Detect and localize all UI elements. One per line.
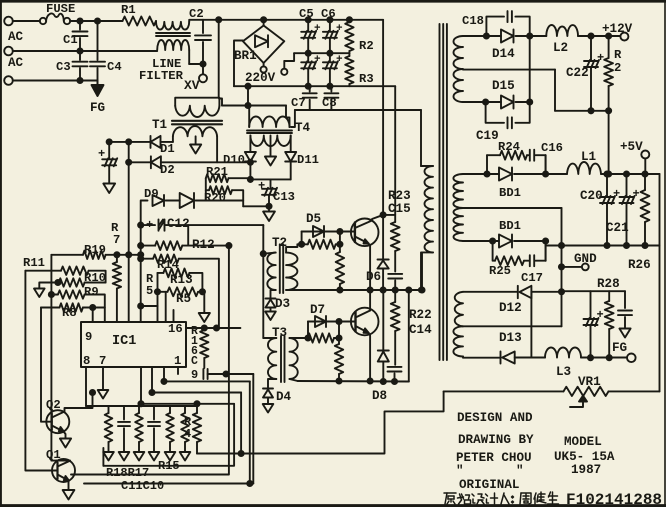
svg-text:R22: R22 bbox=[409, 308, 432, 322]
label R4 bbox=[184, 415, 192, 441]
wire bus129 down bbox=[128, 142, 130, 322]
diode D15 bbox=[486, 96, 530, 109]
node G1 bot bbox=[483, 99, 488, 104]
svg-text:9: 9 bbox=[191, 368, 198, 382]
svg-text:GND: GND bbox=[574, 252, 597, 266]
svg-text:C21: C21 bbox=[606, 221, 629, 235]
node rail-junction bbox=[216, 17, 221, 22]
svg-text:C19: C19 bbox=[476, 129, 499, 143]
svg-text:L3: L3 bbox=[556, 365, 571, 379]
scan border frame bbox=[0, 0, 666, 3]
wire gnd link bbox=[243, 205, 269, 207]
transformer main secondary G3 bbox=[453, 292, 517, 358]
resistor R24 bbox=[487, 151, 527, 160]
wire AC3 line bbox=[13, 80, 98, 82]
label R9 bbox=[84, 285, 99, 299]
capacitor C11 bbox=[118, 406, 130, 461]
wire T1 right riser bbox=[218, 98, 220, 106]
svg-text:FG: FG bbox=[90, 101, 105, 115]
label +12V bbox=[602, 22, 633, 36]
label pin16 bbox=[168, 322, 183, 336]
diode D9b bbox=[180, 193, 244, 208]
svg-text:C: C bbox=[191, 355, 198, 368]
node D10 out bbox=[248, 160, 253, 165]
svg-text:C1: C1 bbox=[63, 33, 78, 47]
node T3 link bot bbox=[336, 335, 341, 340]
label AC top bbox=[8, 30, 24, 44]
inductor line filter top winding bbox=[156, 20, 203, 30]
wiper VR1 bbox=[570, 396, 587, 407]
label D5 bbox=[306, 212, 321, 226]
node midrail 408 bbox=[406, 287, 411, 292]
resistor T2 base bbox=[308, 240, 340, 249]
wire T2 row2 bbox=[297, 243, 307, 245]
resistor R26 bbox=[641, 174, 650, 246]
terminal AC line 3 bbox=[4, 76, 13, 85]
wire primary bottom link bbox=[421, 252, 423, 290]
node D8 rail bbox=[381, 379, 386, 384]
svg-text:C17: C17 bbox=[521, 271, 543, 285]
svg-text:R19: R19 bbox=[84, 243, 106, 257]
svg-text:C13: C13 bbox=[273, 190, 295, 204]
wire vert249 bbox=[249, 381, 251, 483]
svg-text:D8: D8 bbox=[372, 389, 387, 403]
ground FG branch arrow bbox=[619, 329, 630, 338]
wire rail B bbox=[219, 99, 286, 106]
label C17 bbox=[521, 271, 543, 285]
node bus561 gnd bbox=[559, 264, 564, 269]
wire D2 line to D10 bbox=[217, 161, 250, 163]
node c9 dot bbox=[223, 371, 228, 376]
label VR1 bbox=[578, 375, 601, 389]
node R8 drop bbox=[90, 305, 95, 310]
capacitor C1 bbox=[73, 21, 88, 51]
svg-text:R26: R26 bbox=[628, 258, 651, 272]
wire vert229 bbox=[71, 246, 229, 475]
node jog bus140 bbox=[138, 303, 143, 308]
wire right edge bbox=[659, 174, 661, 391]
capacitor C16 bbox=[527, 150, 546, 161]
label C21 bbox=[606, 221, 629, 235]
node R5 left bbox=[155, 289, 160, 294]
svg-text:D6: D6 bbox=[366, 270, 381, 284]
capacitor C4 bbox=[90, 21, 105, 84]
svg-text:R15: R15 bbox=[158, 459, 180, 473]
label C7 bbox=[291, 96, 306, 110]
node fuse-C1 bbox=[77, 18, 82, 23]
node R9-bus51 bbox=[49, 292, 54, 297]
node L3 609 bbox=[607, 355, 612, 360]
label D2 bbox=[160, 163, 175, 177]
svg-text:D4: D4 bbox=[276, 390, 292, 404]
diode D12 bbox=[518, 286, 562, 298]
wire D5 line bbox=[302, 231, 355, 233]
wire D7 line bbox=[308, 321, 356, 323]
label L2 bbox=[553, 41, 568, 55]
label D14 bbox=[492, 47, 515, 61]
terminal +12V bbox=[620, 33, 628, 41]
wire vert103 bbox=[102, 448, 104, 466]
svg-text:R14: R14 bbox=[157, 258, 179, 272]
resistor R11 bbox=[25, 267, 105, 283]
resistor R10 bbox=[58, 278, 106, 286]
svg-text:+: + bbox=[613, 187, 620, 201]
wire R8 drop to IC bbox=[92, 308, 94, 323]
resistor T2 damp bbox=[336, 244, 344, 290]
label R5v bbox=[146, 272, 154, 298]
resistor R7 bbox=[113, 255, 121, 322]
svg-text:DESIGN AND: DESIGN AND bbox=[457, 411, 533, 425]
wire mid rail 290 bbox=[297, 289, 422, 291]
node Q3 collector bbox=[381, 212, 386, 217]
transformer T2 right winding bbox=[286, 244, 297, 290]
label R28 bbox=[597, 277, 620, 291]
node C5 mid bbox=[306, 51, 311, 56]
node C22 bot bbox=[588, 108, 593, 113]
wire 5V left leg bbox=[545, 246, 547, 261]
label C15 bbox=[388, 202, 411, 216]
wire bus51 bbox=[51, 255, 56, 461]
resistor T3 base bbox=[308, 333, 339, 342]
ground FG arrow bbox=[92, 81, 104, 97]
wire C7 jog bbox=[247, 86, 249, 105]
inductor line filter bottom winding bbox=[157, 40, 189, 64]
label T1 bbox=[152, 118, 168, 132]
node D1 bus bbox=[126, 139, 131, 144]
wire horiz483 bbox=[84, 483, 253, 485]
node r16 top bbox=[202, 325, 207, 330]
wire D14-D15 join bbox=[529, 36, 531, 102]
transformer T4 bottom winding bbox=[250, 136, 290, 153]
node BD1b left bbox=[490, 238, 495, 243]
wire stair4 bbox=[141, 367, 234, 404]
label C11C10 bbox=[121, 479, 164, 493]
resistor R28 bbox=[605, 291, 614, 358]
svg-text:2: 2 bbox=[614, 61, 621, 75]
wire bus561 bbox=[561, 208, 563, 326]
label L3 bbox=[556, 365, 571, 379]
transformer T3 right winding bbox=[290, 338, 298, 381]
label BD1b bbox=[499, 219, 521, 233]
transformer T3 left winding bbox=[263, 338, 276, 389]
capacitor C19 bbox=[486, 102, 530, 128]
label R12 bbox=[192, 238, 215, 252]
diode D11 bbox=[285, 152, 296, 179]
resistor R21 bbox=[206, 174, 251, 182]
label Q2 bbox=[46, 398, 61, 412]
capacitor C7 bbox=[303, 86, 317, 110]
svg-text:R23: R23 bbox=[388, 189, 411, 203]
svg-text:R25: R25 bbox=[489, 264, 511, 278]
diode D5 bbox=[313, 226, 324, 237]
label R20 bbox=[204, 191, 226, 205]
diode D10 bbox=[245, 152, 256, 179]
label FILTER bbox=[139, 69, 184, 83]
label L1 bbox=[581, 150, 597, 164]
label XV bbox=[184, 78, 200, 93]
node stair3 dot bbox=[149, 390, 154, 395]
label FG right bbox=[612, 341, 627, 355]
label R10 bbox=[84, 271, 106, 285]
transformer main secondary G1 tap bbox=[463, 69, 555, 71]
diode D8 bbox=[378, 290, 389, 382]
label BR1 bbox=[234, 49, 257, 63]
terminal XV bbox=[199, 74, 207, 82]
capacitor input electrolytic bbox=[98, 142, 117, 184]
label D8 bbox=[372, 389, 387, 403]
capacitor C10 bbox=[148, 406, 160, 461]
svg-text:L2: L2 bbox=[553, 41, 568, 55]
transformer T3 core bbox=[281, 336, 285, 382]
label D9 bbox=[144, 187, 159, 201]
resistor R2 bbox=[604, 36, 613, 111]
ground R5 arrow bbox=[199, 313, 210, 322]
svg-text:T1: T1 bbox=[152, 118, 168, 132]
resistor R4 bbox=[193, 404, 201, 454]
node R12 bus bbox=[138, 243, 143, 248]
terminal AC line 1 bbox=[4, 17, 13, 26]
wire rail A bbox=[234, 85, 395, 87]
resistor R16 bbox=[200, 328, 208, 368]
svg-text:UK5- 15A: UK5- 15A bbox=[554, 450, 615, 464]
wire stair3 bbox=[152, 367, 241, 393]
wire bus140 bbox=[140, 225, 142, 322]
svg-text:C20: C20 bbox=[580, 189, 603, 203]
node R26 top bbox=[642, 171, 647, 176]
resistor R9 bbox=[51, 290, 104, 322]
node R19-bus129 bbox=[126, 252, 131, 257]
node T2 damp rail bbox=[337, 287, 342, 292]
capacitor C5b bbox=[301, 53, 321, 86]
transformer T2 core bbox=[280, 244, 283, 293]
diode BD1b bbox=[493, 235, 546, 248]
wire C12 loop right bbox=[187, 225, 189, 246]
node D6 rail bbox=[381, 287, 386, 292]
label pin9 bbox=[85, 330, 92, 344]
diode D13 bbox=[501, 352, 546, 364]
terminal +5V bbox=[641, 151, 649, 159]
transistor Q2 bbox=[46, 393, 92, 439]
node R19-bus140 bbox=[138, 252, 143, 257]
svg-text:D2: D2 bbox=[160, 163, 175, 177]
node D15 out bbox=[527, 99, 532, 104]
wire D5 corner bbox=[301, 232, 303, 245]
label C16 bbox=[541, 141, 563, 155]
svg-text:D14: D14 bbox=[492, 47, 515, 61]
ground below electrolytic bbox=[103, 184, 115, 194]
label BD1a bbox=[499, 186, 521, 200]
node C6 mid bbox=[327, 51, 332, 56]
resistor R15 bbox=[165, 406, 176, 461]
resistor R3 snubber bbox=[345, 53, 353, 86]
label R22 bbox=[409, 308, 432, 322]
ground below D3 bbox=[265, 312, 276, 321]
inductor L2 bbox=[530, 25, 621, 36]
wire AC1 to fuse bbox=[13, 20, 40, 22]
svg-text:C15: C15 bbox=[388, 202, 411, 216]
node midrail 422 bbox=[419, 287, 424, 292]
transformer T2 left winding bbox=[263, 253, 275, 298]
node R2 top bbox=[347, 17, 352, 22]
label D13 bbox=[499, 331, 522, 345]
ic IC1 box bbox=[81, 322, 186, 367]
terminal FG right bbox=[627, 354, 636, 363]
node r16 217 bbox=[214, 325, 219, 330]
svg-text:PETER CHOU: PETER CHOU bbox=[456, 451, 532, 465]
node R10 left bbox=[55, 280, 60, 285]
wire VR1 rail left bbox=[444, 390, 564, 392]
capacitor C6 bbox=[323, 20, 343, 53]
svg-text:D1: D1 bbox=[160, 142, 175, 156]
wire bridge left leg bbox=[234, 41, 243, 87]
svg-text:R20: R20 bbox=[204, 191, 226, 205]
label C1 bbox=[63, 33, 78, 47]
wire AC2 line bbox=[13, 50, 157, 52]
capacitor C18 bbox=[486, 11, 529, 36]
node stair4 dot bbox=[138, 401, 143, 406]
svg-text:+: + bbox=[336, 54, 343, 66]
svg-text:D7: D7 bbox=[310, 303, 325, 317]
label pin8 bbox=[83, 354, 90, 368]
label R16col bbox=[191, 325, 198, 368]
svg-text:R18R17: R18R17 bbox=[106, 466, 149, 480]
node rect rail left bbox=[248, 177, 253, 182]
inductor L3 bbox=[545, 348, 627, 358]
node BD1a out bbox=[543, 171, 548, 176]
wire D9 corner bbox=[141, 201, 148, 226]
svg-text:8: 8 bbox=[83, 354, 90, 368]
diode D14 bbox=[486, 30, 529, 43]
svg-text:BD1: BD1 bbox=[499, 219, 521, 233]
label T2 bbox=[272, 236, 287, 250]
label AC bottom bbox=[8, 56, 24, 70]
node C6 top bbox=[327, 17, 332, 22]
wire T2 node link bbox=[339, 232, 341, 245]
svg-text:DRAWING BY: DRAWING BY bbox=[458, 433, 534, 447]
node Q3 emitter rail bbox=[368, 287, 373, 292]
resistor T3 damp bbox=[335, 338, 343, 381]
svg-text:C18: C18 bbox=[462, 14, 484, 28]
svg-text:+12V: +12V bbox=[602, 22, 633, 36]
transformer main secondary G2 bbox=[453, 174, 492, 241]
node railA jog bbox=[245, 84, 250, 89]
wire bus41 Q2 base bbox=[41, 308, 47, 422]
svg-text:D15: D15 bbox=[492, 79, 515, 93]
transformer main primary bbox=[421, 166, 433, 290]
svg-text:D12: D12 bbox=[499, 301, 522, 315]
label C19 bbox=[476, 129, 499, 143]
node T2 link bot bbox=[337, 242, 342, 247]
diode D2 bbox=[129, 156, 217, 168]
node R14 bus bbox=[138, 256, 143, 261]
transistor Q3 bbox=[351, 215, 383, 290]
node C5 bot bbox=[306, 84, 311, 89]
label C12 bbox=[167, 217, 190, 231]
wire G3 center tap bbox=[463, 325, 562, 327]
resistor R13 bbox=[158, 269, 203, 292]
ground below D4 bbox=[263, 404, 274, 413]
wire VR1 rail right bbox=[609, 390, 660, 392]
label IC1 bbox=[112, 334, 136, 349]
node C1-AC2 bbox=[77, 48, 82, 53]
label D1 bbox=[160, 142, 175, 156]
label R23 bbox=[388, 189, 411, 203]
svg-text:R8: R8 bbox=[62, 306, 77, 320]
capacitor C13 bbox=[258, 179, 277, 206]
svg-text:T4: T4 bbox=[295, 121, 311, 135]
svg-text:+: + bbox=[597, 51, 604, 65]
label R21 bbox=[206, 165, 228, 179]
label 220V bbox=[245, 71, 276, 85]
ground R10 stub bbox=[34, 289, 45, 298]
capacitor C17 bbox=[524, 255, 546, 266]
wire R8-R9 join bbox=[0, 0, 1, 1]
wire feedback step bbox=[197, 391, 444, 453]
wire R21 left leg bbox=[205, 178, 207, 200]
label R3 snubber bbox=[359, 72, 374, 86]
node T2 link top bbox=[337, 229, 342, 234]
node fuse-C4 bbox=[95, 18, 100, 23]
transformer T1 bottom winding bbox=[173, 126, 217, 161]
terminal 220V-2 bbox=[281, 53, 294, 75]
wire GND stub bbox=[562, 266, 582, 268]
svg-text:R1: R1 bbox=[121, 3, 136, 17]
node r4 top stair bbox=[194, 401, 199, 406]
svg-text:D9: D9 bbox=[144, 187, 159, 201]
node Q2 collector join bbox=[90, 390, 95, 395]
label D15 bbox=[492, 79, 515, 93]
potentiometer VR1 bbox=[564, 387, 609, 396]
wire stair1 bbox=[177, 367, 179, 374]
node C5 top bbox=[306, 17, 311, 22]
node step R4 bbox=[239, 451, 244, 456]
label D11 bbox=[297, 153, 319, 167]
transistor Q1 bbox=[52, 459, 75, 490]
node rail5 561 bbox=[559, 243, 564, 248]
wire bus25 Q1 base bbox=[25, 271, 52, 471]
node rail B C7jog bbox=[245, 103, 250, 108]
label R7 bbox=[111, 221, 120, 247]
node R13-R5 join bbox=[200, 289, 205, 294]
fuse FUSE bbox=[40, 13, 70, 24]
resistor R8 bbox=[41, 303, 105, 311]
label C2 bbox=[189, 7, 204, 21]
capacitor C5 bbox=[301, 20, 321, 53]
node stair2 dot bbox=[161, 379, 166, 384]
svg-text:C11C10: C11C10 bbox=[121, 479, 164, 493]
wire D12-D13 link bbox=[530, 292, 532, 358]
label R2 snubber bbox=[359, 39, 374, 53]
label D10 bbox=[223, 153, 245, 167]
svg-text:R21: R21 bbox=[206, 165, 228, 179]
capacitor FG branch bbox=[618, 291, 632, 328]
svg-text:": " bbox=[516, 464, 524, 478]
capacitor C15 bbox=[388, 251, 402, 290]
wire vert241 bbox=[240, 393, 242, 454]
transformer T1 center tap ground bbox=[190, 136, 201, 153]
resistor R22 bbox=[391, 290, 400, 331]
wire line C bbox=[295, 109, 421, 111]
wire column383 bbox=[382, 20, 384, 260]
svg-text:D5: D5 bbox=[306, 212, 321, 226]
diode D6 bbox=[378, 260, 389, 291]
svg-text:R5: R5 bbox=[176, 292, 191, 306]
resistor R18 bbox=[103, 406, 114, 461]
transformer T1 top winding bbox=[175, 106, 219, 117]
resistor R17 bbox=[134, 406, 145, 461]
label R15 bbox=[158, 459, 180, 473]
label pin1 bbox=[174, 354, 181, 368]
